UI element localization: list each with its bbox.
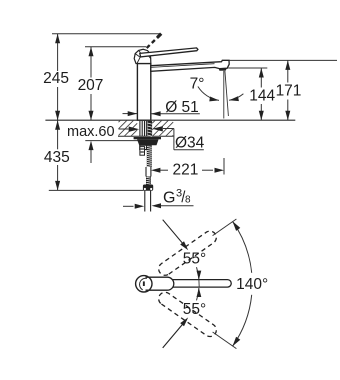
washer under counter bbox=[134, 137, 161, 139]
7 deg arc left bbox=[198, 87, 219, 102]
max.60 label bbox=[67, 124, 115, 140]
G 3/8 thread label bbox=[163, 188, 191, 207]
svg-text:221: 221 bbox=[172, 161, 198, 178]
dimension 171 bbox=[229, 60, 337, 120]
supply tube bbox=[146, 167, 151, 177]
spout outlet (mousseur) bbox=[219, 68, 227, 71]
counter right edge / hole step bbox=[163, 129, 174, 150]
7 deg angle label bbox=[190, 76, 205, 93]
svg-text:207: 207 bbox=[78, 77, 104, 94]
nut lower block bbox=[140, 145, 147, 149]
hose connector bbox=[143, 185, 153, 191]
55 deg arc upper bbox=[163, 220, 202, 280]
handle knob bbox=[134, 49, 151, 63]
svg-text:55°: 55° bbox=[183, 251, 206, 268]
diameter 34 label bbox=[174, 134, 205, 151]
svg-text:140°: 140° bbox=[236, 276, 268, 293]
7 deg arc right bbox=[229, 94, 243, 101]
55 deg label upper bbox=[183, 251, 206, 268]
svg-text:Ø 51: Ø 51 bbox=[165, 99, 199, 116]
threaded rod below nut bbox=[147, 145, 152, 167]
lever handle bbox=[140, 48, 198, 57]
spout bbox=[151, 60, 229, 71]
140 deg arc bbox=[233, 221, 252, 346]
small side block on rod bbox=[140, 147, 145, 156]
svg-text:7°: 7° bbox=[190, 76, 205, 93]
upper axis extension line bbox=[213, 219, 237, 236]
dimension 435 bbox=[44, 120, 70, 190]
countertop section bbox=[45, 120, 295, 136]
faucet body bbox=[137, 64, 150, 121]
plan view: spout swung down (dashed) bbox=[159, 292, 217, 336]
mounting shank through counter bbox=[140, 121, 152, 136]
dimension diameter 51 bbox=[123, 99, 200, 116]
max.60 left arrow bbox=[119, 127, 140, 132]
G3/8 left arrow bbox=[123, 204, 144, 209]
svg-text:55°: 55° bbox=[183, 301, 206, 318]
dimension 245 bbox=[43, 34, 69, 120]
max.60 bottom extension line bbox=[85, 140, 138, 142]
lower axis extension line bbox=[213, 332, 237, 349]
G3/8 leader underline with arrow bbox=[152, 203, 194, 208]
plan view: spout tube bbox=[162, 280, 231, 288]
55 deg label lower bbox=[183, 301, 206, 318]
svg-text:245: 245 bbox=[43, 70, 69, 87]
water stream vertical reference bbox=[223, 71, 225, 119]
svg-text:3: 3 bbox=[176, 188, 182, 200]
svg-text:max.60: max.60 bbox=[67, 124, 115, 140]
mounting nut bbox=[137, 139, 159, 145]
plan view: spout swung up (dashed) bbox=[159, 231, 217, 275]
plan view: handle wide part bbox=[146, 277, 174, 290]
435 bottom extension line bbox=[49, 189, 144, 191]
svg-text:435: 435 bbox=[44, 149, 70, 166]
dimension 221 bbox=[151, 161, 224, 178]
svg-text:144: 144 bbox=[249, 88, 275, 105]
water stream 7 deg line bbox=[225, 71, 229, 116]
svg-text:8: 8 bbox=[185, 194, 191, 205]
max.60 right arrow bbox=[152, 126, 163, 131]
221 extension line bbox=[223, 158, 225, 175]
supply pipe G3/8 bbox=[145, 191, 151, 212]
lever raised position (dashed) bbox=[142, 34, 162, 53]
dimension 207 bbox=[78, 47, 104, 120]
svg-text:G: G bbox=[163, 189, 175, 206]
dimension 144 bbox=[228, 68, 275, 120]
140 deg label bbox=[236, 276, 268, 293]
55 deg arc crossing spout bbox=[198, 280, 200, 287]
207 top extension line bbox=[85, 46, 146, 48]
svg-text:Ø34: Ø34 bbox=[175, 134, 205, 151]
top datum extension line bbox=[52, 33, 161, 35]
tube thread section bbox=[146, 177, 151, 185]
plan view: pivot circle bbox=[136, 276, 152, 292]
svg-text:171: 171 bbox=[276, 83, 302, 100]
55 deg arc lower bbox=[163, 288, 202, 348]
max.60 bottom outside arrow bbox=[89, 141, 94, 163]
